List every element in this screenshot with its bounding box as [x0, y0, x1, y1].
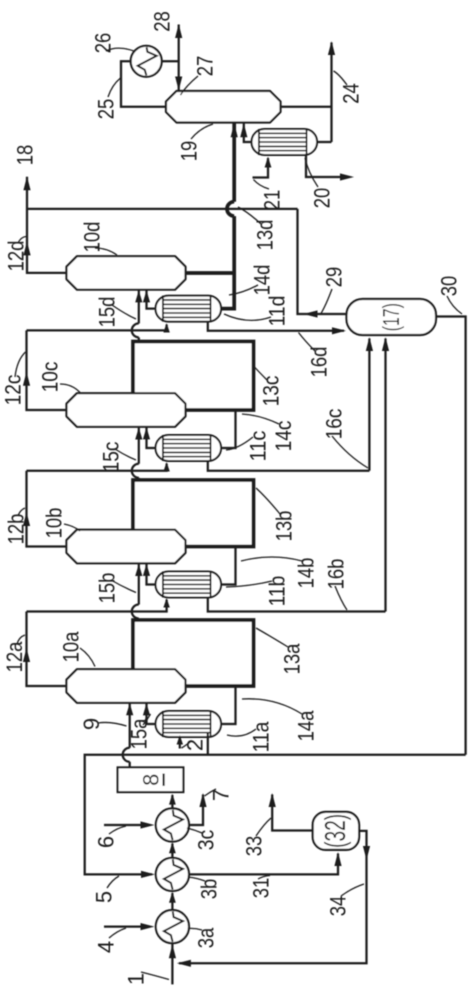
leader for label 12a — [17, 635, 25, 644]
wire 3c to box 8 — [171, 795, 173, 809]
leader for label 12d — [18, 237, 26, 244]
leader for label 11c — [226, 437, 253, 450]
arrow HX 11a outlet into vessel 10a stage a — [143, 703, 150, 715]
heat exchanger 11b stage b — [156, 572, 222, 598]
svg-text:3b: 3b — [197, 879, 222, 900]
heat exchanger 20 — [252, 129, 317, 155]
arrow 16c into vessel 17 bottom — [366, 337, 373, 351]
leader for label 12c — [15, 352, 26, 377]
wire stream 33 from vessel 32 — [272, 795, 313, 831]
leader for label 10b — [64, 524, 80, 531]
wire riser 13d lower part to HX 11d — [221, 273, 234, 309]
wire 29 recycle from vessel 17 to header d — [298, 209, 347, 314]
leader for label 14d — [229, 285, 258, 295]
leader for label 16c — [332, 436, 368, 468]
leader for label 13a — [256, 628, 288, 647]
arrow stream 29 left — [304, 310, 318, 317]
svg-text:13d: 13d — [253, 220, 278, 251]
svg-text:31: 31 — [249, 878, 274, 899]
wire coolant 21 into HX 20 — [253, 158, 269, 178]
arrow header b into HX 11c bottom — [163, 462, 169, 472]
riser 13d from stage d to vessel 19 (thick, hops header) — [232, 124, 236, 202]
leader for label 33 — [256, 818, 271, 836]
wire HX 11b to reactor 13b stage b — [221, 547, 236, 585]
wire HX 11d outlet up into vessel 10d — [147, 290, 156, 308]
leader for label 9 — [98, 722, 127, 726]
leader for label 15d — [112, 305, 136, 319]
wire 25 from vessel 19 to condenser 26 — [121, 61, 167, 106]
arrow stream 18 up — [23, 176, 30, 190]
arrow stream 4 — [141, 923, 155, 930]
arrow riser 13d into vessel 19 — [231, 123, 238, 137]
leader for label 3b — [188, 877, 205, 881]
arrow stream 1 into heater 3a — [169, 944, 176, 958]
wire 16c up into vessel 17 — [368, 339, 370, 471]
arrow header a into HX 11b bottom — [163, 598, 169, 608]
wire 27/28 vertical with junction — [178, 25, 180, 92]
preheater box 8 — [118, 767, 184, 792]
leader for label 15a — [143, 714, 151, 725]
svg-text:15d: 15d — [95, 297, 120, 328]
wire stream 20 out of HX 20 — [306, 155, 341, 177]
arrow stream 12 up stage c — [23, 372, 30, 386]
leader for label 30 — [447, 296, 462, 314]
wire 16b from HX 11b — [208, 598, 386, 612]
leader for label 10d — [95, 248, 117, 255]
svg-text:14b: 14b — [294, 558, 319, 589]
svg-text:12c: 12c — [1, 375, 26, 406]
leader for label 10c — [60, 384, 80, 393]
leader for label 29 — [321, 289, 332, 314]
leader for label 5 — [107, 876, 119, 888]
wire HX 11c outlet up into vessel 10c stage c — [147, 428, 156, 449]
arrow stream 27 down into vessel 19 — [175, 77, 182, 91]
leader for label 26 — [106, 48, 136, 51]
leader for label 7 — [205, 789, 217, 796]
svg-text:27: 27 — [193, 56, 218, 77]
leader for label 14a — [242, 699, 302, 714]
arrow stream 31 into vessel 32 — [334, 852, 341, 866]
svg-text:14a: 14a — [294, 710, 319, 741]
svg-text:12b: 12b — [4, 514, 29, 545]
svg-text:3a: 3a — [194, 927, 219, 948]
leader for label 13b — [256, 488, 280, 514]
arrow riser 15c into vessel 10c — [135, 428, 142, 440]
leader for label 14b — [241, 557, 302, 561]
arrow stream 34 into feed line — [177, 960, 191, 967]
heat exchanger 11a stage a — [156, 711, 222, 737]
arrow HX 20 outlet into vessel 19 — [240, 123, 247, 137]
arrow into heater 3c — [169, 842, 176, 853]
svg-text:16c: 16c — [322, 409, 347, 440]
svg-text:26: 26 — [91, 33, 116, 54]
vessel 19 — [166, 91, 281, 123]
leader for label 3a — [188, 928, 202, 930]
header stage c feeding HX 11d — [27, 325, 167, 331]
riser 15c from reactor 13b to vessel 10c (hops header b) — [138, 428, 140, 464]
svg-text:3c: 3c — [194, 830, 219, 851]
wire heater train vertical — [171, 943, 173, 984]
arrow stream 34 direction down — [363, 846, 370, 860]
wire hydrogen 2 into HX 11a — [179, 738, 181, 749]
svg-text:25: 25 — [94, 99, 119, 120]
svg-text:15a: 15a — [127, 718, 152, 749]
wire line 24 vertical — [330, 43, 332, 143]
arrow stream 12 up stage b — [23, 512, 30, 526]
arrow riser 15d into vessel 10d — [135, 290, 142, 302]
leader for label 3c — [187, 828, 202, 833]
heater 3c — [156, 808, 189, 841]
svg-text:30: 30 — [437, 276, 462, 297]
leader for label 11d — [224, 314, 271, 320]
wire 3b to 3c — [171, 844, 173, 859]
wire HX 20 outlet up into vessel 19 — [244, 123, 254, 142]
wire 16a from HX 11a down to line 30 — [207, 733, 209, 755]
leader for label 21 — [254, 180, 270, 190]
svg-text:9: 9 — [79, 718, 104, 730]
header stage a feeding HX 11b — [27, 600, 167, 612]
svg-text:4: 4 — [94, 941, 119, 953]
leader for label 31 — [258, 876, 270, 880]
wire HX 11a to reactor 13a stage a — [221, 686, 236, 724]
arrow stream 6 — [141, 821, 155, 828]
wire 12 left leg stage a — [27, 612, 67, 687]
arrow stream 24 up — [328, 41, 335, 55]
svg-text:11c: 11c — [246, 431, 271, 462]
header stage b feeding HX 11c — [27, 464, 167, 471]
arrow stream 7 up — [199, 793, 206, 807]
riser 9/15a from preheater 8 to vessel 10a (hops line 30) — [129, 703, 131, 747]
arrow into heater 3b — [169, 892, 176, 903]
svg-text:33: 33 — [242, 836, 267, 857]
svg-text:6: 6 — [94, 836, 119, 848]
svg-text:20: 20 — [310, 188, 335, 209]
leader for label 13c — [255, 367, 268, 380]
svg-text:8: 8 — [138, 774, 163, 786]
leader for label 14c — [242, 414, 279, 424]
svg-text:12a: 12a — [2, 641, 27, 672]
svg-text:11b: 11b — [265, 576, 290, 607]
arrow HX 11b outlet into vessel 10b stage b — [143, 564, 150, 576]
wire 3a to 3b — [171, 893, 173, 910]
svg-text:14c: 14c — [271, 421, 296, 452]
wire stream 31 from 3b to vessel 32 — [189, 854, 338, 875]
svg-text:14d: 14d — [250, 265, 275, 296]
arrow HX 11c outlet into vessel 10c stage c — [143, 427, 150, 439]
svg-text:13c: 13c — [259, 376, 284, 407]
leader for label 25 — [108, 78, 121, 97]
arrow header c into HX 11d bottom — [163, 323, 169, 333]
arrow HX 11d outlet into vessel 10d — [143, 290, 150, 302]
wire 16b up into vessel 17 — [384, 339, 386, 612]
reactor 13c stage c — [133, 342, 254, 411]
svg-text:19: 19 — [177, 141, 202, 162]
svg-text:15c: 15c — [99, 442, 124, 473]
leader for label 13d — [238, 207, 261, 224]
svg-text:(17): (17) — [378, 303, 404, 331]
svg-text:10b: 10b — [42, 508, 67, 539]
riser 15b from reactor 13a to vessel 10b (hops header a) — [138, 564, 140, 604]
svg-text:12d: 12d — [4, 241, 29, 272]
arrow riser 15b into vessel 10b — [135, 564, 142, 576]
arrow stream 12d up — [23, 241, 30, 255]
wire 30 horizontal and down to heater 3b (stream 5) — [85, 755, 466, 875]
arrow stream 20 out right — [340, 173, 354, 180]
leader for label 15c — [115, 449, 136, 460]
heat exchanger 11d — [156, 296, 222, 322]
leader for label 10a — [80, 648, 95, 667]
leader for label 20 — [305, 158, 318, 187]
svg-text:28: 28 — [150, 11, 175, 32]
svg-text:10a: 10a — [59, 631, 84, 662]
leader for label 2 — [182, 742, 191, 748]
vessel 10a stage a — [67, 669, 186, 703]
wire stream 7 from 3c — [189, 795, 203, 826]
heater 3a — [156, 910, 189, 943]
svg-text:11d: 11d — [265, 296, 290, 327]
leader for label 11b — [226, 581, 272, 587]
svg-text:13b: 13b — [272, 511, 297, 542]
leader for label 16b — [335, 586, 347, 610]
svg-text:13a: 13a — [280, 643, 305, 674]
arrow riser 15a into vessel 10a — [126, 703, 133, 715]
leader for label 34 — [341, 884, 364, 896]
arrow stream 16d into vessel 17 — [332, 327, 346, 334]
riser 15d from reactor 13c to vessel 10d (hops header c) — [138, 291, 140, 324]
leader for label 11a — [227, 729, 256, 736]
wire 12 left leg stage c — [27, 330, 67, 410]
heat exchanger 11c stage c — [156, 435, 222, 461]
svg-text:11a: 11a — [249, 721, 274, 752]
leader for label 1 — [141, 972, 169, 980]
condenser 26 — [131, 46, 162, 77]
vessel 10b stage b — [67, 530, 186, 564]
arrow stream 5 into heater 3b — [141, 871, 155, 878]
wire 16c from HX 11c — [208, 461, 370, 471]
svg-text:5: 5 — [92, 891, 117, 903]
arrow stream 28 up — [175, 24, 182, 38]
vessel 17 — [347, 299, 437, 335]
svg-text:29: 29 — [322, 267, 347, 288]
arrow stream 21 into HX 20 bottom — [265, 157, 272, 168]
leader for label 12b — [18, 508, 25, 516]
wire 16d from HX 11d to vessel 17 — [208, 322, 344, 331]
header stage d — [27, 208, 298, 210]
leader for label 15b — [111, 580, 136, 593]
wire 12 left leg stage b — [27, 471, 67, 547]
wire 18/12d left leg stage d — [27, 177, 67, 273]
wire stream 4 into 3a — [104, 925, 143, 927]
svg-text:24: 24 — [339, 83, 364, 104]
reactor 13b stage b — [133, 480, 254, 547]
svg-text:16b: 16b — [324, 559, 349, 590]
wire vessel 19 to line 24 — [281, 106, 332, 108]
heater 3b — [156, 858, 189, 891]
arrow stream 12 up stage a — [23, 648, 30, 662]
wire 30 from vessel 17 right — [436, 317, 466, 755]
svg-text:10c: 10c — [38, 362, 63, 393]
vessel 10d — [67, 256, 186, 290]
wire stream 6 into 3c — [104, 824, 143, 826]
svg-text:1: 1 — [124, 973, 149, 985]
leader for label 16d — [299, 333, 316, 352]
wire HX 11a outlet up into vessel 10a stage a — [147, 704, 156, 725]
svg-text:18: 18 — [13, 145, 38, 166]
leader for label 4 — [109, 928, 126, 938]
arrow 16b into vessel 17 bottom — [382, 337, 389, 351]
svg-text:15b: 15b — [95, 573, 120, 604]
svg-text:34: 34 — [326, 896, 351, 917]
svg-text:(32): (32) — [320, 814, 352, 848]
thick horizontal vessel 10d to riser 13d — [186, 271, 235, 275]
arrow stream 33 up — [269, 793, 276, 807]
leader for label 6 — [109, 826, 126, 834]
wire stream 34 from vessel 32 — [179, 831, 367, 963]
vessel 10c stage c — [67, 393, 186, 427]
leader for label 27 — [181, 76, 199, 95]
svg-text:16d: 16d — [307, 347, 332, 378]
wire HX 11c to reactor 13c stage c — [221, 410, 236, 448]
leader for label 24 — [334, 71, 348, 85]
arrow stream 2 into HX 11a bottom — [177, 735, 183, 745]
wire HX 11b outlet up into vessel 10b stage b — [147, 564, 156, 585]
wire condenser 26 outlet to node 27 — [162, 60, 179, 62]
svg-text:21: 21 — [260, 190, 285, 211]
leader for label 19 — [191, 124, 213, 139]
vessel 32 — [313, 812, 359, 850]
reactor 13a stage a — [133, 620, 254, 686]
arrow into box 8 — [169, 794, 176, 805]
wire HX 20 right cap to line 24 — [317, 141, 331, 143]
